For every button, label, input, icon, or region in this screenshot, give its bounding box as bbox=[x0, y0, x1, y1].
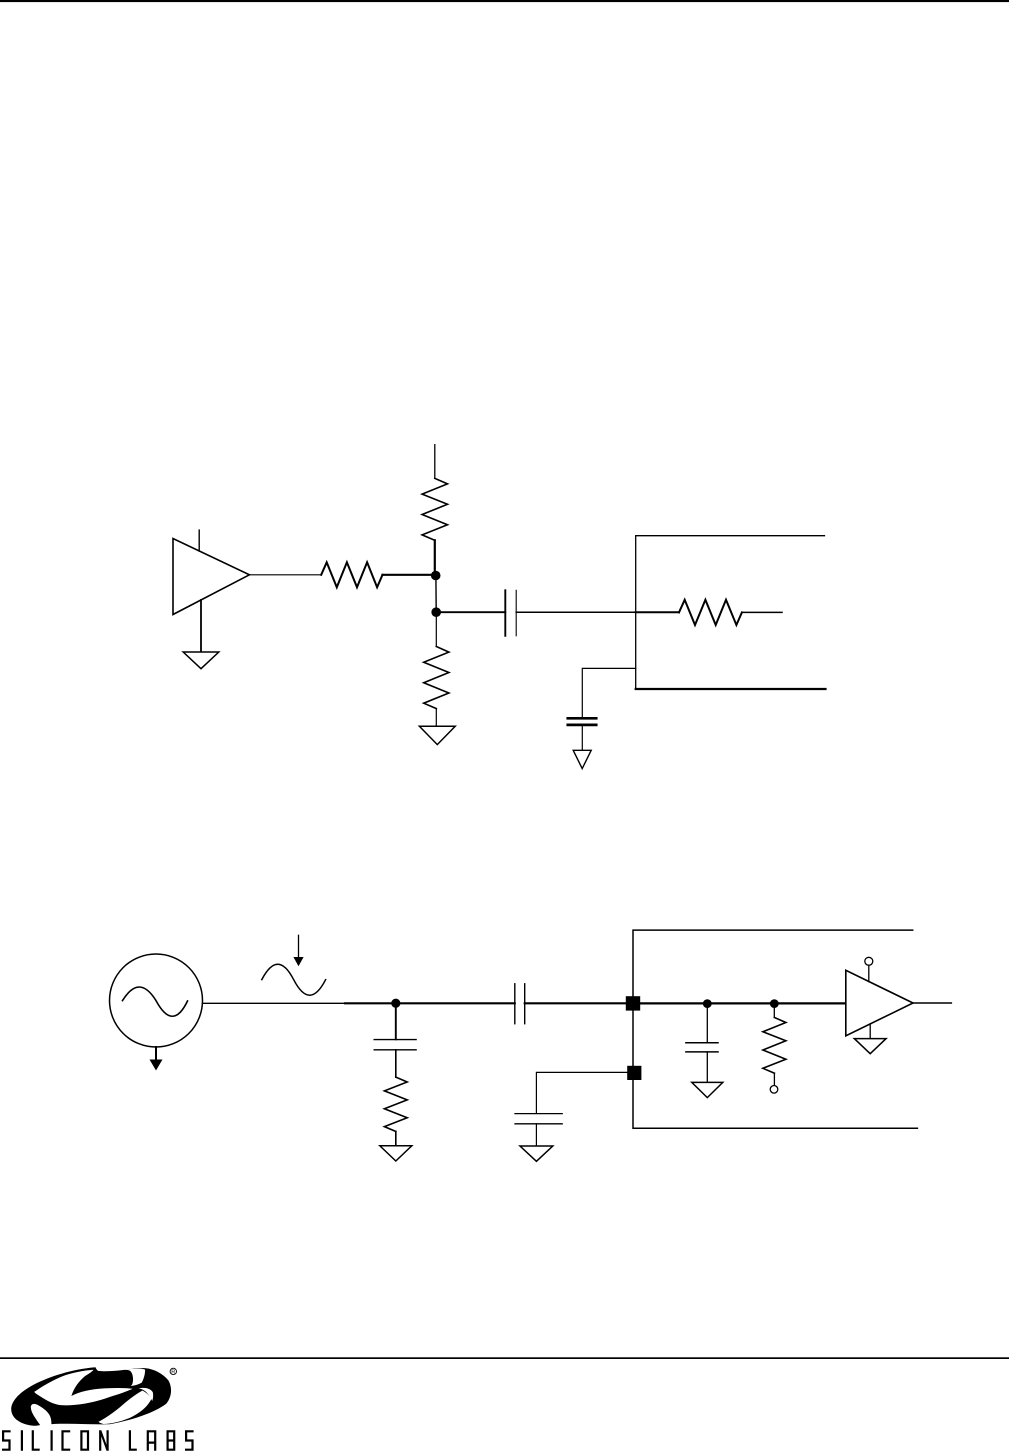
svg-text:R: R bbox=[171, 1369, 175, 1375]
